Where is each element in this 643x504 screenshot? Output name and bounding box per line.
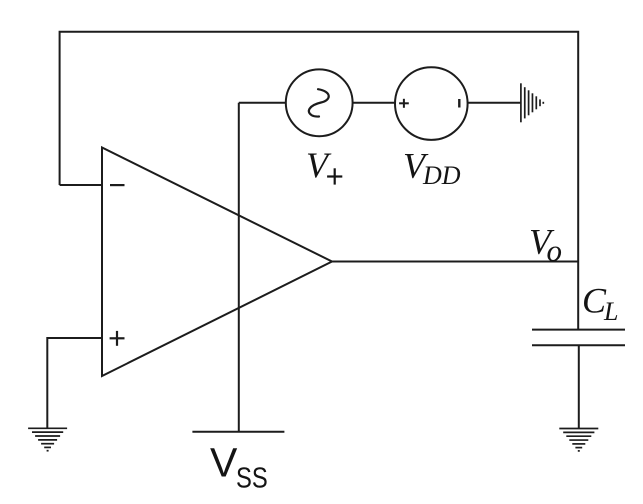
op-amp U1 [102, 148, 332, 377]
wire DC source to ground [468, 102, 521, 104]
ground (left, non-inverting input) [28, 428, 67, 450]
svg-text:V: V [306, 145, 332, 185]
DC source VDD [395, 67, 468, 140]
svg-text:o: o [547, 233, 563, 268]
wire output Vo [332, 261, 578, 263]
AC source sine squiggle [309, 89, 329, 116]
op-amp minus label [110, 184, 125, 186]
wire feedback loop (inverting input to output node, across top) [60, 32, 579, 330]
svg-text:L: L [603, 297, 618, 326]
wire inverting input [60, 184, 102, 186]
wire VSS (through op-amp down to rail) [238, 103, 240, 432]
svg-text:SS: SS [236, 461, 268, 494]
label V+ subscript plus [327, 168, 342, 184]
op-amp plus label [110, 331, 125, 346]
DC source plus terminal [399, 99, 409, 108]
capacitor CL top plate [532, 329, 625, 331]
capacitor CL bottom plate [532, 344, 625, 346]
ground (right of VDD, rotated) [521, 83, 543, 122]
wire capacitor to ground [578, 345, 580, 428]
wire to AC source [239, 102, 286, 104]
svg-text:DD: DD [422, 161, 461, 190]
node VSS rail bar [192, 431, 284, 433]
svg-text:V: V [210, 439, 238, 485]
AC source V+ [286, 69, 353, 136]
DC source minus terminal tick [458, 99, 460, 108]
wire non-inverting input [47, 338, 102, 428]
ground (below capacitor) [559, 429, 598, 451]
wire AC to DC source [353, 102, 395, 104]
